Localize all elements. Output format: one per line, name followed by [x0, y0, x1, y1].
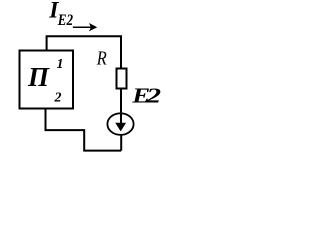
two-port network box П — [20, 51, 74, 109]
wire: source bottom — [120, 135, 122, 151]
current source E2 (ellipse) — [107, 113, 133, 135]
wire: bottom return (staircase) — [46, 109, 122, 151]
current direction arrow — [73, 23, 97, 31]
svg-text:П: П — [27, 62, 50, 92]
svg-text:1: 1 — [57, 57, 64, 72]
svg-text:E2: E2 — [57, 12, 73, 29]
label I_E2 — [48, 0, 73, 29]
svg-text:2: 2 — [54, 90, 62, 105]
svg-text:R: R — [96, 47, 107, 69]
svg-text:2: 2 — [145, 84, 161, 108]
current source arrowhead — [115, 123, 126, 132]
wire: top (box top to resistor branch) — [47, 36, 121, 68]
wire: resistor bottom into source (arrow shaft) — [120, 90, 122, 124]
resistor R — [117, 69, 127, 89]
